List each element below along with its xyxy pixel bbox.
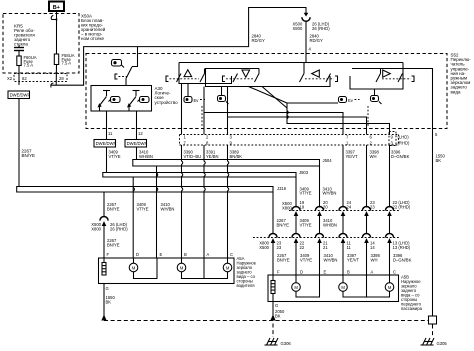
assembly left side xyxy=(179,63,232,84)
svg-text:D: D xyxy=(300,270,303,275)
A5A wire A inside xyxy=(203,258,205,279)
internal link dashed left xyxy=(201,106,203,126)
ground G305 xyxy=(421,338,448,346)
switch group right: left blade xyxy=(376,74,381,83)
ground plate box xyxy=(429,316,437,324)
wire drop A5A pin D xyxy=(132,177,134,258)
svg-text:2222: 2222 xyxy=(300,241,305,250)
A30 internal driver 2 xyxy=(127,91,149,112)
internal stub left icon B xyxy=(221,87,223,96)
row2 connector symbols xyxy=(269,234,394,244)
switch group down: link dashes xyxy=(226,78,254,80)
circuit tag DWE/DWF pin12 xyxy=(125,140,148,148)
svg-text:M: M xyxy=(294,285,298,290)
wire 3396 S52 to A5B C xyxy=(389,145,391,208)
Ev actuator icon right A xyxy=(339,97,360,104)
wire drop A5A pin F from J316 xyxy=(103,192,105,217)
ground harness dashed run xyxy=(104,320,429,322)
wire 2840 into switch S52 pin 4 xyxy=(305,21,307,63)
switch group left: left blade xyxy=(300,74,305,83)
wire F58UA to X2 pin 28 xyxy=(55,65,57,86)
A30 internal driver 1 xyxy=(98,91,121,112)
switch group left: bracket xyxy=(335,76,338,82)
svg-text:26 (LHD)26 (RHD): 26 (LHD)26 (RHD) xyxy=(312,22,330,31)
connector X500/X800 pin 26 inline symbol xyxy=(302,13,310,22)
A5A heater resistor xyxy=(102,258,106,275)
switch group down: triangle xyxy=(242,70,250,77)
A5A motor M2 xyxy=(177,258,186,272)
internal stub left icon A xyxy=(187,84,189,97)
svg-text:2020: 2020 xyxy=(323,200,328,209)
mirror A5B housing xyxy=(268,275,399,302)
switch group left: triangle xyxy=(312,70,320,77)
svg-text:E: E xyxy=(160,252,163,257)
svg-text:F: F xyxy=(277,270,280,275)
internal drop pin1 xyxy=(181,84,183,135)
hop E over J503 xyxy=(157,173,158,177)
svg-text:M: M xyxy=(180,265,184,270)
svg-text:12: 12 xyxy=(138,131,143,136)
internal link dashed right xyxy=(367,106,369,126)
internal bus 2 xyxy=(228,87,367,135)
wire 1550 BK A5A ground xyxy=(103,284,105,318)
ground G306 xyxy=(265,338,292,346)
hop E over J316 xyxy=(157,187,158,191)
svg-text:J316: J316 xyxy=(277,186,287,191)
svg-text:DWE/DWF: DWE/DWF xyxy=(96,141,117,146)
fuse F60UA 7.5A xyxy=(17,55,37,68)
svg-text:(RHD): (RHD) xyxy=(398,141,410,146)
switch group up: link dashes xyxy=(170,78,200,80)
svg-text:X2: X2 xyxy=(7,76,13,81)
logic device A30 xyxy=(91,86,178,112)
svg-text:B+: B+ xyxy=(53,5,60,11)
A5A motor M1 xyxy=(129,258,138,272)
internal feed to bus3 xyxy=(287,102,338,104)
assembly right side xyxy=(350,63,403,90)
wire 3398 S52 to A5B A xyxy=(366,145,368,208)
wire drop A5B E from J504 xyxy=(319,166,321,208)
svg-text:X500X800: X500X800 xyxy=(282,201,292,210)
A5B heater resistor xyxy=(271,275,275,302)
wire 2840 RD/GY fuse to connector X500 xyxy=(51,8,306,86)
svg-text:28: 28 xyxy=(59,76,64,81)
fuse F58UA 7.5A xyxy=(54,53,74,66)
wire A30 pin 12 xyxy=(136,111,138,140)
switch group down: right blade xyxy=(255,74,260,83)
A5B motor M2 xyxy=(339,275,348,291)
assembly inner rail 2 xyxy=(206,69,331,87)
wires row2 to A5B xyxy=(272,241,274,275)
internal diagonal feed 1 xyxy=(249,87,288,104)
svg-text:2323: 2323 xyxy=(370,200,375,209)
internal drop pin3 xyxy=(227,117,229,135)
splice J503 bus wire 3409 xyxy=(103,173,296,178)
switch group right: link dashes xyxy=(382,78,411,80)
svg-text:2121: 2121 xyxy=(323,241,328,250)
wire 2267 BN/YE from tag down xyxy=(18,99,20,187)
wire drop A5B F from J316 xyxy=(272,192,274,234)
dashed drop to G306 xyxy=(272,324,274,338)
wire 3390 to A5A pin B with hops xyxy=(182,145,183,258)
switch group down: bracket xyxy=(223,76,226,82)
circuit tag DWE/DWF pin11 xyxy=(94,140,117,148)
svg-text:1919: 1919 xyxy=(300,200,305,209)
svg-text:X500X800: X500X800 xyxy=(91,222,101,231)
A5B link M2 M3 to A xyxy=(343,291,390,297)
mirror A5A housing xyxy=(99,258,235,284)
svg-text:62: 62 xyxy=(22,76,27,81)
svg-text:C: C xyxy=(230,252,233,257)
svg-text:M: M xyxy=(132,265,136,270)
svg-text:22 (LHD)22 (RHD): 22 (LHD)22 (RHD) xyxy=(393,200,411,209)
svg-text:1111: 1111 xyxy=(347,241,352,250)
A5A link M1 to E xyxy=(134,258,158,279)
connector X2 xyxy=(7,74,67,82)
select switch bracket link xyxy=(115,74,128,79)
relay KR5 coil xyxy=(14,45,24,56)
svg-text:(LHD): (LHD) xyxy=(398,135,410,140)
svg-text:M: M xyxy=(341,285,345,290)
switch group right: right blade xyxy=(398,74,403,83)
svg-text:X50AБлок плав-ких предо-хранит: X50AБлок плав-ких предо-хранителей– в мо… xyxy=(81,14,106,42)
wire drop A5B D from J503 xyxy=(295,177,297,208)
switch assembly top rail xyxy=(179,62,403,64)
switch group down: left blade xyxy=(233,74,238,83)
svg-text:G: G xyxy=(106,286,109,291)
switch S52 dashed housing xyxy=(86,54,447,129)
wire 3410 from tag to splice xyxy=(136,147,138,160)
wire 3409 from tag to splice xyxy=(106,147,108,173)
A5B wire A inside xyxy=(366,275,368,297)
svg-text:11: 11 xyxy=(108,131,113,136)
internal bus 1 xyxy=(204,87,343,135)
wire 3389 to A5A pin C with hops xyxy=(228,145,229,258)
connector X500/X800 pin 26 on 2267 xyxy=(100,217,108,227)
internal stub right icon B xyxy=(374,89,376,96)
A5A motor M3 xyxy=(223,258,232,272)
Ev actuator icon right B xyxy=(371,96,382,105)
A5B motor M1 xyxy=(292,275,301,291)
switch group left: link dashes xyxy=(305,78,334,80)
mirror select switch contact xyxy=(126,47,138,86)
wire 1550 BK S52 to ground plate xyxy=(432,129,434,317)
svg-text:G: G xyxy=(275,303,278,308)
svg-text:E: E xyxy=(324,270,327,275)
assembly right feed rail xyxy=(352,69,433,129)
svg-text:A: A xyxy=(371,270,374,275)
svg-text:A5BНаружноезеркалозаднеговида: A5BНаружноезеркалозаднеговида – состорон… xyxy=(401,275,423,312)
svg-text:B: B xyxy=(347,270,350,275)
Ev actuator icon left B xyxy=(218,96,229,105)
Ev actuator icon left A xyxy=(184,97,205,104)
mirror select switch icon xyxy=(112,60,125,68)
internal bus 3 xyxy=(287,103,390,135)
A5B link M1 to E xyxy=(296,275,320,297)
wire 3391 to A5A pin A with hops xyxy=(204,145,205,258)
switch group up: triangle xyxy=(184,70,192,77)
wire 2050 BK A5B ground xyxy=(272,302,274,318)
junction arrow A5A ground xyxy=(101,315,106,321)
wires between rows xyxy=(295,214,297,235)
wire A30 pin 11 xyxy=(106,111,108,140)
svg-text:G306: G306 xyxy=(281,341,292,346)
circuit tag DWE/DWF left xyxy=(8,91,31,99)
switch group up: right blade xyxy=(200,74,205,83)
switch group right: bracket xyxy=(412,76,415,82)
svg-text:B: B xyxy=(184,252,187,257)
battery feed B+ xyxy=(49,2,64,12)
switch group right: triangle xyxy=(383,70,391,77)
svg-text:2424: 2424 xyxy=(347,200,352,209)
internal hop bus3 drop xyxy=(287,111,288,115)
A5B motor M3 xyxy=(385,275,394,291)
internal drop pin2 hop xyxy=(203,113,205,135)
inline connector row 1 dotted xyxy=(289,210,399,212)
svg-text:1414: 1414 xyxy=(370,241,375,250)
svg-text:X800X500: X800X500 xyxy=(259,241,269,250)
hop D over J316 xyxy=(133,187,134,191)
inline connector row 2 dotted xyxy=(253,237,399,239)
wire relay to fuse F58UA xyxy=(56,15,58,54)
svg-text:D: D xyxy=(136,252,139,257)
connector stub at wire 2840 start xyxy=(51,83,54,88)
switch group up: bracket xyxy=(166,76,169,82)
wire F60UA to X2 pin 62 xyxy=(18,66,20,86)
fuse block X50A dashed box xyxy=(3,14,79,74)
svg-text:A: A xyxy=(207,252,210,257)
wire drop A5A pin E xyxy=(156,166,158,258)
dashed drop to G305 xyxy=(432,325,434,338)
variant pin dotted outline xyxy=(389,132,396,146)
svg-text:C: C xyxy=(393,270,396,275)
svg-text:13 (LHD)13 (RHD): 13 (LHD)13 (RHD) xyxy=(393,241,411,250)
svg-text:DWE/DWF: DWE/DWF xyxy=(10,93,31,98)
svg-text:F: F xyxy=(107,252,110,257)
splice J504 bus wire 3410 xyxy=(133,160,320,167)
connector S52 dotted strip xyxy=(180,135,399,146)
svg-text:DWE/DWF: DWE/DWF xyxy=(127,141,148,146)
svg-text:26 (LHD)26 (RHD): 26 (LHD)26 (RHD) xyxy=(110,222,128,231)
row1 connector symbols xyxy=(292,207,394,217)
svg-text:2323: 2323 xyxy=(277,241,282,250)
svg-text:J504: J504 xyxy=(323,158,333,163)
svg-text:M: M xyxy=(226,265,230,270)
wire 2267 to A5A F xyxy=(103,225,105,259)
A5A link M2 M3 to A xyxy=(182,272,228,279)
wire B+ to relay contact xyxy=(56,11,58,15)
svg-text:G305: G305 xyxy=(437,341,448,346)
internal diagonal feed 2 xyxy=(262,87,287,109)
splice J316 bus wire 2267 xyxy=(17,187,273,193)
svg-text:X500X800: X500X800 xyxy=(293,22,303,31)
wire 3397 S52 to A5B B xyxy=(342,145,344,208)
svg-text:J503: J503 xyxy=(299,170,309,175)
junction arrow A5B ground xyxy=(270,315,275,321)
switch group up: left blade xyxy=(177,74,182,83)
svg-text:M: M xyxy=(388,285,392,290)
relay KR5 contact xyxy=(51,15,57,20)
switch group left: right blade xyxy=(326,74,331,83)
